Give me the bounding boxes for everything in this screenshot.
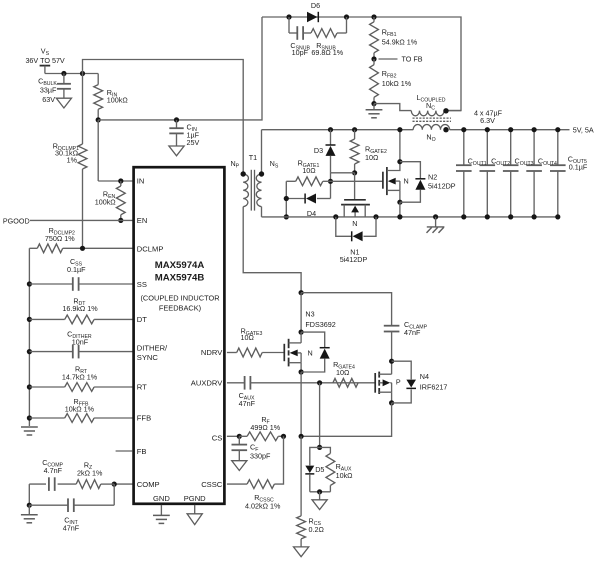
junction DCLMP — [80, 246, 85, 251]
wire IN node to snubber rail — [98, 17, 262, 120]
wire secondary top rail — [262, 17, 461, 111]
diode N1 body diode — [336, 217, 376, 241]
label RDT — [73, 297, 86, 308]
transistor N4 channel — [378, 372, 380, 394]
svg-text:47nF: 47nF — [63, 524, 80, 533]
junction bus FFB — [27, 415, 32, 420]
capacitor COUT5 — [550, 130, 566, 217]
label N1 type — [352, 219, 357, 228]
label 33uF — [40, 85, 57, 94]
label RSNUB — [316, 41, 336, 52]
junction VS-RDCLMP1 — [80, 71, 85, 76]
wire TO FB tick — [379, 58, 398, 60]
label N4 type — [396, 378, 401, 387]
pin DT — [137, 315, 147, 324]
junction D4 rail — [284, 214, 289, 219]
junction RGATE1 right — [328, 179, 333, 184]
capacitor COUT2 — [480, 130, 496, 217]
svg-text:5V, 5A: 5V, 5A — [573, 125, 594, 134]
transistor N1 stubs — [344, 205, 365, 217]
svg-text:PGND: PGND — [184, 494, 206, 503]
resistor RFB1 — [370, 17, 379, 59]
svg-text:COMP: COMP — [137, 480, 160, 489]
transistor N4 gate bar — [374, 373, 376, 393]
junction D5 bottom — [317, 489, 322, 494]
junction RF right — [281, 434, 286, 439]
ground RCS — [294, 547, 309, 557]
label N1 — [350, 248, 359, 257]
junction RIN-CIN — [96, 117, 101, 122]
label D5 — [315, 465, 324, 474]
label RGATE3 value — [241, 333, 255, 342]
pin FFB — [137, 414, 151, 423]
label CSS value — [67, 265, 86, 274]
junction VS-CBULK — [61, 71, 66, 76]
pin EN — [137, 216, 148, 225]
label COUT1 — [468, 157, 487, 168]
transistor N2 drain — [387, 130, 400, 171]
capacitor CCOMP — [29, 477, 76, 491]
svg-text:DCLMP: DCLMP — [137, 245, 164, 254]
resistor RF — [239, 432, 283, 441]
svg-text:10Ω: 10Ω — [336, 368, 350, 377]
svg-text:DT: DT — [137, 315, 147, 324]
inductor LCOUPLED No winding — [413, 124, 449, 129]
svg-text:N: N — [404, 177, 409, 186]
label D6 — [311, 1, 320, 10]
svg-text:N4: N4 — [420, 372, 429, 381]
diode D3 — [326, 130, 336, 173]
node Ns polarity dot — [259, 171, 264, 176]
junction N3 source — [299, 369, 304, 374]
pin FB — [137, 447, 147, 456]
label REN — [103, 190, 116, 201]
svg-text:4.02kΩ 1%: 4.02kΩ 1% — [245, 502, 281, 511]
svg-text:10kΩ: 10kΩ — [336, 471, 354, 480]
pin DITHER — [137, 343, 168, 352]
svg-text:16.9kΩ 1%: 16.9kΩ 1% — [62, 304, 98, 313]
transistor N2 body arrow — [388, 178, 400, 191]
wire N2 source to rail — [399, 202, 401, 217]
label N2 part — [428, 182, 456, 191]
transistor N4 body arrow — [379, 379, 391, 392]
label T1 — [249, 153, 257, 162]
transistor N4 drain stub — [379, 361, 391, 374]
label feedback — [159, 304, 201, 313]
ground CBULK — [56, 98, 71, 108]
wire CS pin — [227, 435, 239, 437]
label RGATE4 — [333, 360, 355, 371]
pin CS — [212, 433, 223, 442]
label CSNUB value — [292, 48, 309, 57]
svg-text:69.8Ω 1%: 69.8Ω 1% — [311, 48, 343, 57]
ground RFB2 — [366, 104, 383, 118]
label RGATE1 — [298, 158, 320, 169]
label RFFB — [73, 397, 89, 408]
svg-text:10pF: 10pF — [292, 48, 309, 57]
transistor Q N1 gate bar — [344, 199, 366, 201]
resistor RSNUB — [311, 17, 347, 37]
label CSS — [70, 257, 83, 268]
pin PGND — [184, 494, 206, 503]
junction N2 rail — [397, 214, 402, 219]
svg-text:N: N — [352, 219, 357, 228]
svg-text:10Ω: 10Ω — [241, 333, 255, 342]
svg-text:SS: SS — [137, 280, 147, 289]
label RFFB value — [65, 405, 95, 414]
label CDITHER — [67, 329, 92, 340]
label TO FB — [402, 55, 423, 64]
label N2 type — [404, 177, 409, 186]
resistor RZ — [76, 480, 114, 489]
svg-text:SYNC: SYNC — [137, 353, 159, 362]
wire N3 drain lead — [300, 293, 302, 332]
label NC — [426, 101, 435, 112]
label 36V TO 57V — [25, 56, 64, 65]
transistor N1 channel — [341, 204, 370, 206]
wire D4 left leg — [285, 181, 287, 217]
svg-text:0.1µF: 0.1µF — [67, 265, 86, 274]
wire N4 source to CS node — [301, 403, 392, 436]
label RGATE4 value — [336, 368, 350, 377]
ground COMP network — [21, 505, 38, 523]
junction COUT3 bottom — [508, 214, 513, 219]
label CSNUB — [290, 41, 310, 52]
resistor RFFB — [29, 414, 132, 423]
label COUT5 — [568, 154, 587, 165]
label RFB2 — [382, 69, 397, 80]
label RRT — [75, 365, 88, 376]
svg-text:6.3V: 6.3V — [480, 116, 495, 125]
diode D4 — [286, 194, 330, 204]
transformer T1 core — [251, 170, 254, 211]
svg-text:100kΩ: 100kΩ — [107, 96, 129, 105]
svg-text:N3: N3 — [305, 310, 314, 319]
label RCSSC value — [245, 502, 281, 511]
wire COMP left leg — [28, 484, 30, 505]
label RRT value — [62, 373, 98, 382]
wire PGOOD to EN pin — [30, 219, 133, 221]
svg-text:N2: N2 — [428, 173, 437, 182]
label RGATE3 — [241, 326, 263, 337]
svg-text:47nF: 47nF — [239, 399, 256, 408]
label RDT value — [62, 304, 98, 313]
transistor N2 gate bar — [382, 172, 384, 189]
transistor N3 body arrow — [290, 350, 302, 363]
ground CF — [232, 461, 247, 471]
svg-text:IRF6217: IRF6217 — [420, 383, 448, 392]
pin NDRV — [201, 348, 223, 357]
svg-text:NDRV: NDRV — [201, 348, 223, 357]
node Np polarity dot — [241, 171, 246, 176]
svg-text:10Ω: 10Ω — [365, 153, 379, 162]
junction COUT2 top — [485, 127, 490, 132]
label 5V 5A — [573, 125, 594, 134]
wire secondary bottom rail — [262, 216, 558, 218]
wire N3 source down — [300, 372, 302, 436]
label RCSSC — [254, 493, 274, 504]
svg-text:P: P — [396, 378, 401, 387]
label PGOOD — [3, 216, 30, 225]
pin SS — [137, 280, 147, 289]
label N3 — [305, 310, 314, 319]
node No polarity dot — [443, 127, 448, 132]
junction D3 top — [328, 127, 333, 132]
junction D4 cathode — [284, 196, 289, 201]
label CF value — [250, 452, 271, 461]
label RIN — [107, 88, 118, 99]
junction REN bottom — [118, 218, 123, 223]
wire D5 RAUX bottom — [310, 491, 331, 493]
svg-text:D5: D5 — [315, 465, 324, 474]
junction N3 drain — [299, 330, 304, 335]
label RFB1 — [382, 28, 397, 39]
label CCLAMP value — [404, 328, 421, 337]
transistor N1 body arrow — [351, 206, 359, 213]
label CIN value — [187, 130, 200, 139]
junction COUT5 top — [555, 127, 560, 132]
label RSNUB value — [311, 48, 343, 57]
junction COUT5 bottom — [555, 214, 560, 219]
junction bus DT — [27, 317, 32, 322]
label RAUX — [336, 462, 352, 473]
junction COUT1 top — [461, 127, 466, 132]
junction primary bottom — [299, 290, 304, 295]
ground D5 RAUX — [312, 492, 327, 510]
pin DCLMP — [137, 245, 164, 254]
wire gate node vertical — [330, 173, 332, 199]
pin IN — [137, 177, 145, 186]
svg-text:IN: IN — [137, 177, 145, 186]
junction N1 drain — [333, 214, 338, 219]
junction gate node — [352, 170, 357, 175]
wire N2 gate lead — [331, 180, 383, 182]
label N1 part — [340, 255, 368, 264]
label RFB1 value — [382, 37, 418, 46]
svg-text:36V TO 57V: 36V TO 57V — [25, 56, 64, 65]
svg-text:RT: RT — [137, 383, 147, 392]
label MAX5974B — [155, 273, 205, 284]
label COUT5 value — [569, 163, 588, 172]
capacitor CBULK — [57, 74, 71, 99]
op-amp U1 MAX5974 box — [134, 167, 225, 504]
label CINT value — [63, 524, 80, 533]
capacitor CAUX — [227, 376, 375, 390]
diode N3 body diode — [301, 332, 330, 372]
junction COUT4 top — [532, 127, 537, 132]
junction COUT1 bottom — [461, 214, 466, 219]
junction CF tap — [237, 434, 242, 439]
junction REN top — [118, 178, 123, 183]
transformer T1 primary — [243, 174, 301, 293]
resistor RFB2 — [370, 59, 379, 104]
svg-text:T1: T1 — [249, 153, 257, 162]
label 4x47uF — [474, 108, 503, 117]
resistor RGATE3 — [227, 348, 284, 357]
svg-text:D6: D6 — [311, 1, 320, 10]
svg-text:10Ω: 10Ω — [302, 166, 316, 175]
pin COMP — [137, 480, 160, 489]
inductor core — [413, 118, 452, 121]
wire to CCLAMP — [301, 293, 392, 326]
svg-text:CSSC: CSSC — [201, 480, 223, 489]
resistor RDCLMP2 — [29, 244, 132, 253]
resistor REN — [116, 181, 125, 220]
label D3 — [314, 146, 323, 155]
label RDCLMP2 value — [45, 234, 75, 243]
transistor N2 source — [387, 190, 400, 202]
label RZ — [84, 460, 92, 471]
transistor N3 channel — [288, 339, 290, 367]
wire VS rail — [45, 73, 98, 75]
label N3 part — [305, 320, 335, 329]
junction COMP gnd — [27, 503, 32, 508]
transistor N3 source stub — [289, 363, 302, 372]
svg-text:4.7nF: 4.7nF — [44, 466, 63, 475]
svg-text:FEEDBACK): FEEDBACK) — [159, 304, 201, 313]
label N4 part — [420, 383, 448, 392]
resistor RGATE1 — [286, 177, 330, 186]
label coupled inductor — [140, 294, 219, 303]
label CBULK — [38, 77, 57, 88]
label CIN rating — [187, 138, 200, 147]
ground left bus — [21, 427, 38, 435]
resistor RIN — [94, 74, 103, 120]
label CINT — [64, 515, 78, 526]
svg-text:0.1µF: 0.1µF — [569, 163, 588, 172]
label REN value — [95, 197, 117, 206]
label N4 — [420, 372, 429, 381]
label D4 — [307, 209, 316, 218]
pin SYNC — [137, 353, 159, 362]
inductor LCOUPLED Nc winding — [374, 104, 461, 116]
svg-text:5i412DP: 5i412DP — [340, 255, 368, 264]
junction bus RT — [27, 384, 32, 389]
resistor RGATE2 — [350, 130, 359, 173]
junction CIN tap — [174, 117, 179, 122]
wire FB stub — [116, 450, 133, 452]
svg-text:750Ω 1%: 750Ω 1% — [45, 234, 75, 243]
capacitor CIN — [169, 120, 183, 146]
label RCS — [309, 516, 322, 527]
label RGATE2 — [365, 145, 387, 156]
label RF — [261, 415, 269, 426]
capacitor CF — [232, 436, 248, 460]
ground PGND pin — [187, 505, 202, 525]
svg-text:0.2Ω: 0.2Ω — [309, 525, 325, 534]
label 63V — [42, 95, 55, 104]
pin CSSC — [201, 480, 223, 489]
label VS — [41, 47, 50, 58]
junction COUT4 bottom — [532, 214, 537, 219]
junction snubber left — [286, 14, 291, 19]
junction bus SS — [27, 281, 32, 286]
transistor N3 drain stub — [289, 332, 302, 343]
resistor RGATE4 — [333, 378, 358, 387]
capacitor COUT4 — [526, 130, 542, 217]
junction N2 drain — [397, 159, 402, 164]
svg-text:100kΩ: 100kΩ — [95, 197, 117, 206]
label 6.3V — [480, 116, 495, 125]
svg-text:10nF: 10nF — [72, 337, 89, 346]
svg-text:GND: GND — [153, 494, 170, 503]
svg-text:47nF: 47nF — [404, 328, 421, 337]
label CCOMP value — [44, 466, 63, 475]
junction TO FB — [371, 56, 376, 61]
label RDCLMP1 tol — [67, 156, 78, 165]
pin RT — [137, 383, 147, 392]
label RZ value — [77, 469, 103, 478]
junction snubber right — [344, 14, 349, 19]
svg-text:5i412DP: 5i412DP — [428, 182, 456, 191]
diode D6 — [307, 12, 318, 22]
svg-text:EN: EN — [137, 216, 148, 225]
wire COMP pin — [114, 483, 132, 485]
junction AUXDRV branch — [317, 380, 322, 385]
label CDITHER value — [72, 337, 89, 346]
svg-text:TO FB: TO FB — [402, 55, 423, 64]
label RFB2 value — [382, 79, 412, 88]
svg-text:FFB: FFB — [137, 414, 151, 423]
label RCS value — [309, 525, 325, 534]
svg-text:DITHER/: DITHER/ — [137, 343, 168, 352]
svg-text:54.9kΩ 1%: 54.9kΩ 1% — [382, 37, 418, 46]
svg-text:MAX5974B: MAX5974B — [155, 273, 205, 284]
junction chassis gnd — [433, 214, 438, 219]
junction RFB1 top — [371, 14, 376, 19]
svg-text:FDS3692: FDS3692 — [305, 320, 335, 329]
svg-text:(COUPLED INDUCTOR: (COUPLED INDUCTOR — [140, 294, 219, 303]
capacitor CDITHER — [29, 345, 132, 359]
label LCOUPLED — [416, 93, 445, 104]
transistor N4 source stub — [379, 392, 391, 403]
junction RFB2 bottom — [371, 101, 376, 106]
wire left bus — [28, 248, 30, 426]
capacitor CINT — [29, 484, 114, 512]
junction N2 source — [397, 200, 402, 205]
svg-text:14.7kΩ 1%: 14.7kΩ 1% — [62, 373, 98, 382]
resistor RDT — [29, 315, 132, 324]
label CCLAMP — [404, 320, 428, 331]
label RGATE2 value — [365, 153, 379, 162]
label NP — [230, 159, 239, 170]
label COUT3 — [515, 157, 534, 168]
label RDCLMP1 — [53, 142, 79, 153]
label COUT4 — [538, 157, 557, 168]
label RIN value — [107, 96, 129, 105]
svg-text:PGOOD: PGOOD — [3, 216, 30, 225]
capacitor CSNUB — [289, 17, 311, 40]
label CIN — [187, 123, 198, 134]
capacitor COUT3 — [503, 130, 519, 217]
svg-text:N: N — [308, 349, 313, 358]
label MAX5974A — [155, 260, 205, 271]
wire IN pin — [98, 120, 132, 181]
junction CS sense — [299, 434, 304, 439]
junction N2 drain rail — [397, 127, 402, 132]
ground CIN — [169, 146, 184, 156]
label RDCLMP1 value — [55, 149, 79, 158]
svg-text:MAX5974A: MAX5974A — [155, 260, 205, 271]
junction N1 source — [373, 214, 378, 219]
label N2 — [428, 173, 437, 182]
svg-text:D3: D3 — [314, 146, 323, 155]
junction COUT2 bottom — [485, 214, 490, 219]
junction RGATE2 top — [352, 127, 357, 132]
wire VS to primary top — [83, 60, 244, 175]
label COUT2 — [491, 157, 510, 168]
svg-text:10kΩ 1%: 10kΩ 1% — [382, 79, 412, 88]
